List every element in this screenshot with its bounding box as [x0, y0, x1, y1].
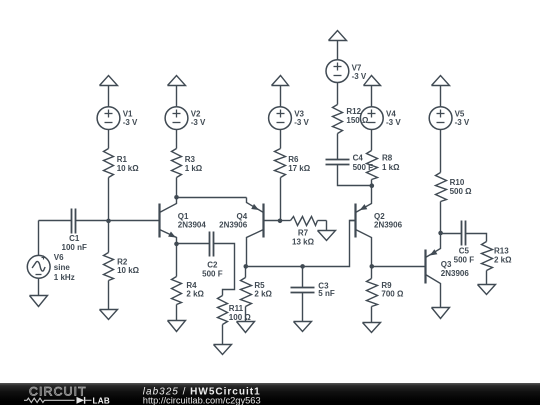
- svg-text:C4: C4: [353, 154, 364, 163]
- svg-text:2N3906: 2N3906: [219, 221, 248, 230]
- svg-text:1 kHz: 1 kHz: [54, 273, 75, 282]
- node (C3 tap): [300, 264, 305, 269]
- wire: [371, 307, 373, 323]
- wire: [280, 130, 282, 149]
- wire: [337, 83, 339, 105]
- svg-text:1 kΩ: 1 kΩ: [382, 163, 400, 172]
- node (Q2 emitter / C4 / R8): [370, 183, 375, 188]
- resistor R9: [367, 279, 404, 307]
- ground (R9): [363, 323, 381, 333]
- resistor R11: [218, 296, 252, 325]
- node (Q1 emitter / R4 / C2): [174, 242, 179, 247]
- svg-text:2 kΩ: 2 kΩ: [254, 289, 272, 298]
- svg-text:2 kΩ: 2 kΩ: [186, 290, 204, 299]
- wire: [371, 180, 373, 186]
- wire: [39, 221, 72, 256]
- transistor Q1 (2N3904 NPN): [160, 198, 207, 244]
- wire: [176, 130, 178, 149]
- footer bar: [0, 383, 540, 405]
- svg-text:R13: R13: [494, 246, 509, 255]
- svg-text:R1: R1: [117, 155, 128, 164]
- wire: [177, 197, 247, 199]
- resistor R10: [436, 173, 473, 202]
- wire: [176, 244, 178, 277]
- power flag (V4): [364, 76, 381, 107]
- svg-text:R11: R11: [229, 304, 244, 313]
- capacitor C5: [454, 221, 475, 265]
- wire: [371, 267, 373, 279]
- svg-text:CIRCUIT: CIRCUIT: [29, 385, 87, 399]
- ground (Q3 collector): [432, 308, 450, 319]
- svg-text:500 Ω: 500 Ω: [450, 187, 473, 196]
- capacitor C3: [291, 267, 335, 322]
- CircuitLab logo LAB text: [93, 396, 110, 405]
- ground (R5): [237, 322, 255, 333]
- footer title text: [143, 386, 261, 397]
- svg-text:V6: V6: [54, 253, 64, 262]
- svg-text:C1: C1: [69, 234, 80, 243]
- voltage source V2: [165, 107, 206, 130]
- resistor R2: [104, 253, 140, 281]
- wire: [486, 271, 488, 285]
- svg-text:R3: R3: [185, 155, 196, 164]
- CircuitLab logo wordmark: [29, 385, 87, 399]
- ground (R7): [318, 231, 336, 241]
- wire: [441, 233, 462, 235]
- svg-text:2N3906: 2N3906: [441, 269, 470, 278]
- svg-text:2N3904: 2N3904: [178, 221, 207, 230]
- voltage source V5: [429, 107, 470, 130]
- resistor R5: [241, 278, 273, 307]
- resistor R8: [367, 151, 401, 180]
- svg-text:1 kΩ: 1 kΩ: [185, 164, 203, 173]
- resistor R13: [482, 242, 513, 271]
- wire: [76, 220, 160, 222]
- svg-text:R2: R2: [117, 257, 128, 266]
- power flag (V1): [100, 76, 118, 107]
- svg-text:V3: V3: [294, 110, 304, 119]
- ground (C3): [294, 322, 312, 332]
- wire: [222, 325, 224, 345]
- svg-text:R10: R10: [450, 178, 465, 187]
- svg-text:100 nF: 100 nF: [62, 243, 87, 252]
- wire: [245, 307, 247, 322]
- svg-text:-3 V: -3 V: [294, 118, 309, 127]
- wire: [245, 267, 247, 278]
- svg-text:Q3: Q3: [441, 260, 452, 269]
- wire: [108, 130, 110, 149]
- resistor R12: [333, 105, 343, 134]
- node (input / V1 bias junction): [106, 219, 111, 224]
- resistor R1: [104, 149, 140, 178]
- svg-text:13 kΩ: 13 kΩ: [292, 238, 315, 247]
- ground (R2): [100, 310, 118, 320]
- capacitor C2: [202, 232, 223, 279]
- ground (V6): [30, 279, 48, 307]
- footer url text: [143, 395, 261, 405]
- svg-text:R6: R6: [288, 155, 299, 164]
- svg-text:-3 V: -3 V: [191, 118, 206, 127]
- svg-text:-3 V: -3 V: [455, 118, 470, 127]
- wire: [326, 221, 328, 231]
- wire: [466, 234, 487, 242]
- voltage source V3: [269, 107, 310, 130]
- node (Q4 base / R6 / R7): [278, 219, 283, 224]
- wire: [108, 221, 110, 253]
- capacitor C4: [326, 154, 374, 172]
- power flag (V2): [168, 76, 186, 107]
- CircuitLab logo resistor-diode line: [24, 397, 92, 404]
- svg-text:2N3906: 2N3906: [374, 221, 403, 230]
- wire: [371, 130, 373, 151]
- svg-text:10 kΩ: 10 kΩ: [117, 266, 140, 275]
- transistor Q2 (2N3906 PNP): [350, 186, 403, 267]
- svg-text:R8: R8: [382, 154, 393, 163]
- svg-text:10 kΩ: 10 kΩ: [117, 164, 140, 173]
- svg-text:R9: R9: [381, 281, 392, 290]
- svg-text:LAB: LAB: [93, 396, 110, 405]
- ground (R11): [214, 345, 232, 355]
- svg-text:V1: V1: [123, 110, 133, 119]
- voltage source V4: [360, 107, 401, 130]
- svg-text:100 Ω: 100 Ω: [229, 313, 252, 322]
- wire: [108, 178, 110, 221]
- transistor Q3 (2N3906 PNP): [426, 234, 470, 308]
- wire: [177, 243, 210, 245]
- wire: [108, 281, 110, 310]
- resistor R7: [281, 217, 327, 247]
- wire: [214, 244, 235, 296]
- capacitor C1: [62, 209, 87, 253]
- svg-text:C5: C5: [459, 246, 470, 255]
- svg-text:2 kΩ: 2 kΩ: [494, 255, 512, 264]
- power flag (V5): [432, 76, 450, 107]
- voltage source V6 (sine, 1 kHz): [27, 253, 74, 282]
- svg-text:V4: V4: [386, 110, 396, 119]
- svg-text:V5: V5: [455, 110, 465, 119]
- svg-text:500 F: 500 F: [454, 255, 475, 264]
- power flag (V7): [329, 31, 347, 60]
- svg-text:Q2: Q2: [374, 212, 385, 221]
- svg-text:C2: C2: [207, 260, 218, 269]
- resistor R4: [172, 277, 205, 305]
- ground (R13): [478, 285, 496, 295]
- svg-text:-3 V: -3 V: [386, 118, 401, 127]
- wire: [372, 266, 426, 268]
- voltage source V7: [326, 60, 367, 83]
- svg-text:-3 V: -3 V: [123, 118, 138, 127]
- svg-text:-3 V: -3 V: [352, 72, 367, 81]
- node (Q3 emitter / R10 / C5): [438, 231, 443, 236]
- wire: [338, 165, 372, 186]
- transistor Q4 (2N3906 PNP): [219, 198, 280, 267]
- voltage source V1: [97, 107, 138, 130]
- svg-text:5 nF: 5 nF: [318, 289, 335, 298]
- svg-text:V2: V2: [191, 110, 201, 119]
- wire: [176, 305, 178, 321]
- node (Q4 collector / R5): [244, 264, 249, 269]
- wire: [337, 134, 339, 160]
- wire: [246, 221, 356, 267]
- resistor R3: [172, 149, 203, 178]
- svg-text:Q1: Q1: [178, 212, 189, 221]
- svg-text:V7: V7: [352, 63, 362, 72]
- power flag (V3): [272, 76, 289, 107]
- ground (R4): [168, 321, 186, 332]
- svg-text:sine: sine: [54, 263, 71, 272]
- svg-text:17 kΩ: 17 kΩ: [288, 164, 311, 173]
- resistor R12 value label: [346, 107, 369, 125]
- svg-text:150 Ω: 150 Ω: [346, 116, 369, 125]
- svg-text:Q4: Q4: [237, 212, 248, 221]
- wire: [280, 178, 282, 221]
- wire: [440, 202, 442, 234]
- svg-text:700 Ω: 700 Ω: [381, 290, 404, 299]
- svg-text:R7: R7: [298, 229, 309, 238]
- node (Q2 collector / R9): [370, 264, 375, 269]
- svg-text:http://circuitlab.com/c2gy563: http://circuitlab.com/c2gy563: [143, 395, 261, 405]
- wire: [440, 130, 442, 173]
- svg-text:500 F: 500 F: [202, 269, 223, 278]
- node (Q1 collector / R3): [174, 195, 179, 200]
- svg-text:R12: R12: [346, 107, 361, 116]
- wire: [176, 178, 178, 198]
- svg-text:R4: R4: [186, 281, 197, 290]
- resistor R6: [275, 149, 311, 178]
